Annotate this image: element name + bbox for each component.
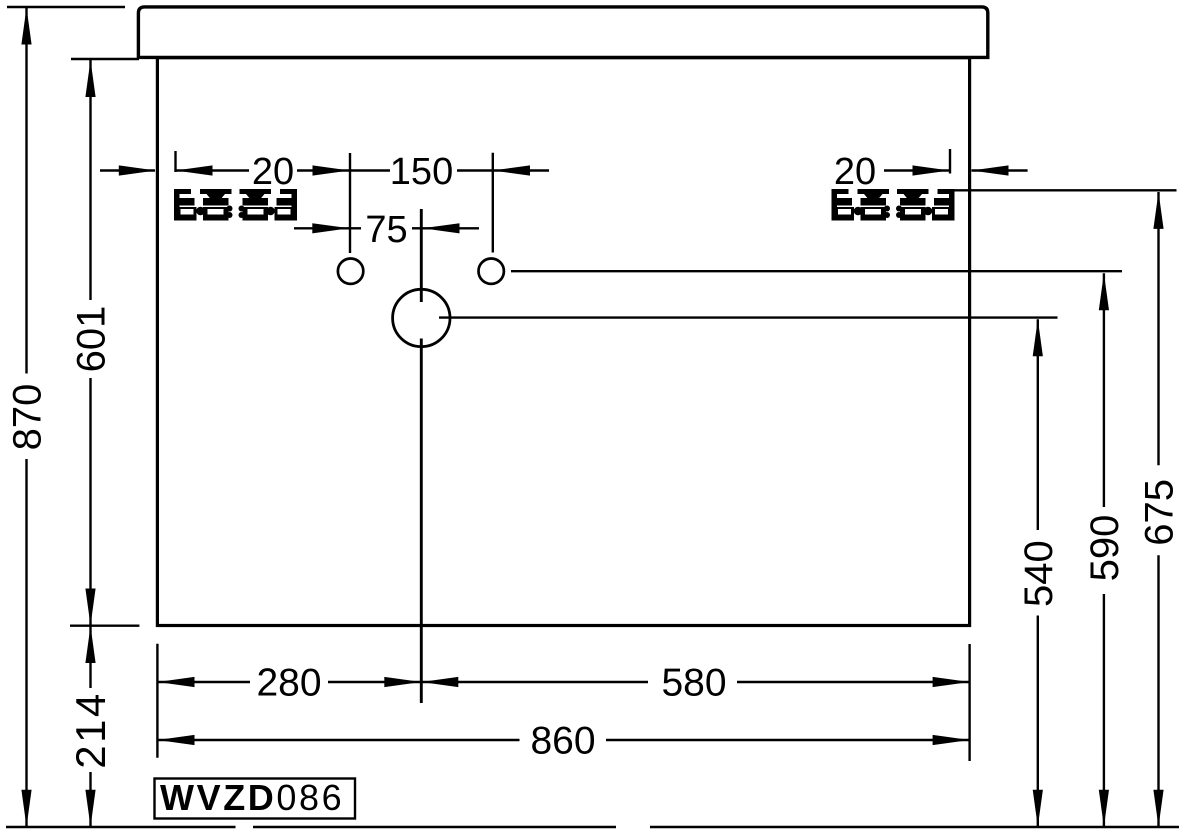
svg-text:WVZD086: WVZD086 [160,777,344,818]
svg-text:870: 870 [6,384,50,451]
svg-text:860: 860 [530,720,595,763]
svg-text:280: 280 [256,662,321,705]
svg-text:75: 75 [365,209,407,251]
svg-text:580: 580 [661,662,726,705]
svg-text:590: 590 [1083,515,1127,582]
svg-text:214: 214 [67,691,114,769]
svg-text:675: 675 [1138,479,1182,546]
svg-text:20: 20 [834,151,876,193]
svg-text:601: 601 [70,306,114,373]
svg-text:150: 150 [390,151,453,193]
svg-text:540: 540 [1017,540,1061,607]
svg-text:20: 20 [252,151,294,193]
